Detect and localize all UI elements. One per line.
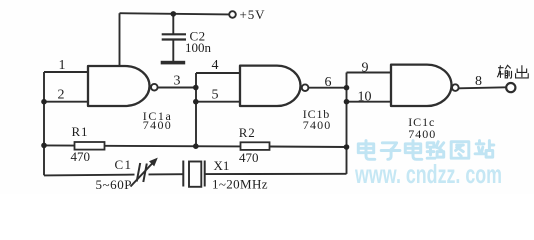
svg-text:7400: 7400: [143, 118, 171, 132]
svg-text:R1: R1: [72, 124, 89, 139]
svg-text:7400: 7400: [303, 118, 331, 132]
svg-text:www. cndzz. com: www. cndzz. com: [354, 160, 502, 189]
svg-text:1: 1: [59, 58, 66, 73]
svg-text:470: 470: [71, 149, 91, 164]
svg-text:5: 5: [212, 88, 219, 103]
svg-text:X1: X1: [214, 158, 230, 173]
svg-text:5~60P: 5~60P: [96, 177, 132, 192]
svg-text:C1: C1: [115, 157, 133, 172]
svg-text:2: 2: [58, 87, 65, 102]
svg-text:100n: 100n: [185, 40, 212, 55]
svg-text:6: 6: [325, 75, 332, 90]
svg-text:470: 470: [239, 150, 259, 165]
svg-text:7400: 7400: [408, 127, 435, 141]
svg-text:10: 10: [358, 89, 372, 104]
svg-text:+5V: +5V: [240, 7, 266, 22]
svg-text:R2: R2: [239, 125, 256, 140]
svg-text:8: 8: [475, 74, 482, 89]
svg-text:9: 9: [362, 60, 369, 75]
svg-text:1~20MHz: 1~20MHz: [212, 176, 268, 191]
svg-text:3: 3: [174, 74, 181, 89]
svg-text:4: 4: [212, 58, 219, 73]
